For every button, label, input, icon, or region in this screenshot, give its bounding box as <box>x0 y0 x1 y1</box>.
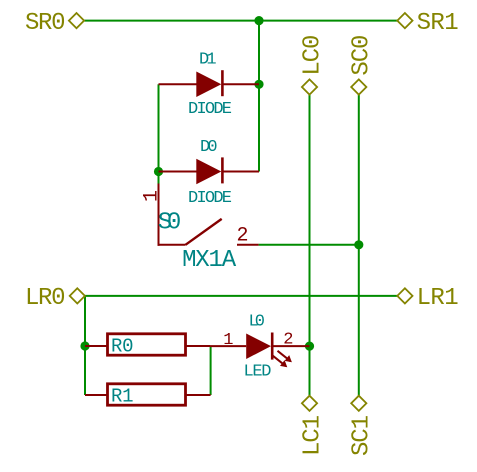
junction top wire <box>254 16 263 25</box>
svg-text:R0: R0 <box>111 336 134 358</box>
diode D0 <box>159 138 260 208</box>
svg-text:D1: D1 <box>199 50 217 69</box>
junction D0 left <box>154 167 163 176</box>
hier label LC0 <box>299 35 326 95</box>
svg-text:1: 1 <box>141 190 164 202</box>
wire LC0-LC1 vertical <box>309 95 311 396</box>
hier label SC0 <box>349 35 376 95</box>
svg-text:LC1: LC1 <box>299 415 326 456</box>
svg-text:LC0: LC0 <box>299 35 326 76</box>
svg-text:D0: D0 <box>200 138 218 157</box>
svg-text:SC0: SC0 <box>349 35 376 76</box>
svg-text:SR0: SR0 <box>25 10 66 37</box>
hier label LC1 <box>299 396 326 456</box>
svg-text:2: 2 <box>237 225 249 248</box>
svg-text:SR1: SR1 <box>417 10 459 37</box>
wire top SR0-SR1 <box>85 20 398 22</box>
hier label SR0 <box>25 10 84 37</box>
svg-text:SC1: SC1 <box>349 415 376 456</box>
junction switch-SC <box>354 240 363 249</box>
svg-text:DIODE: DIODE <box>188 189 232 208</box>
hier label LR1 <box>397 285 458 312</box>
svg-text:1: 1 <box>223 331 233 350</box>
wire vertical D1 left to switch pin1 <box>158 84 160 183</box>
svg-text:LED: LED <box>244 363 272 382</box>
resistor R1 <box>85 384 211 408</box>
svg-text:DIODE: DIODE <box>188 100 232 119</box>
hier label LR0 <box>25 285 85 312</box>
resistor R0 <box>85 334 211 358</box>
junction R0 left <box>80 341 89 350</box>
svg-text:S0: S0 <box>158 210 182 237</box>
svg-text:L0: L0 <box>249 313 266 332</box>
junction D1 right <box>254 80 263 89</box>
diode D1 <box>159 50 260 119</box>
LED L0 <box>211 313 310 382</box>
LED emission arrows <box>278 351 291 361</box>
wire LR0-LR1 <box>85 295 398 297</box>
switch S0 MX1A <box>141 184 259 275</box>
hier label SC1 <box>349 396 376 456</box>
svg-text:MX1A: MX1A <box>182 247 237 274</box>
wire right vertical R0 to R1 <box>210 346 212 395</box>
wire left vertical LR0 to R1 <box>84 296 86 395</box>
svg-text:LR0: LR0 <box>25 285 66 312</box>
wire SC0-SC1 vertical <box>358 95 360 396</box>
wire vertical from top junction to D0 right <box>258 21 260 172</box>
junction LED-LC <box>305 342 314 351</box>
svg-text:2: 2 <box>283 330 293 349</box>
svg-text:R1: R1 <box>111 386 134 408</box>
hier label SR1 <box>397 10 458 37</box>
wire switch pin2 to SC column <box>259 244 359 246</box>
svg-text:LR1: LR1 <box>417 285 459 312</box>
